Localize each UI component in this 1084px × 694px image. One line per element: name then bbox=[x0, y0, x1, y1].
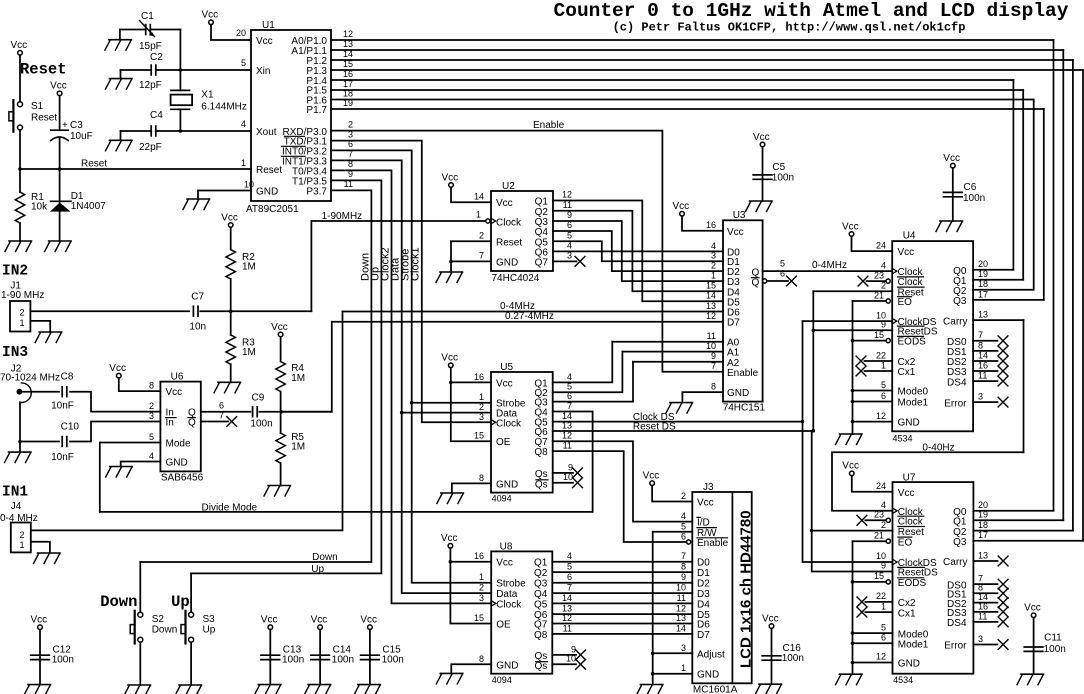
svg-text:Q7: Q7 bbox=[535, 257, 549, 268]
svg-text:100n: 100n bbox=[52, 655, 74, 666]
svg-text:4: 4 bbox=[241, 119, 246, 129]
svg-text:5: 5 bbox=[881, 622, 886, 632]
svg-text:1: 1 bbox=[241, 158, 246, 168]
svg-text:Reset: Reset bbox=[20, 61, 67, 79]
svg-text:LCD 1x16 ch HD44780: LCD 1x16 ch HD44780 bbox=[738, 510, 755, 668]
svg-text:21: 21 bbox=[874, 290, 884, 300]
svg-text:C11: C11 bbox=[1044, 633, 1062, 644]
svg-text:C4: C4 bbox=[150, 110, 163, 121]
svg-text:12: 12 bbox=[706, 311, 716, 321]
svg-text:4: 4 bbox=[881, 260, 886, 270]
svg-text:14: 14 bbox=[978, 350, 988, 360]
svg-text:24: 24 bbox=[876, 241, 886, 251]
svg-text:Q3: Q3 bbox=[953, 537, 967, 548]
svg-text:Enable: Enable bbox=[697, 538, 729, 549]
svg-text:12pF: 12pF bbox=[139, 80, 162, 91]
svg-text:Vcc: Vcc bbox=[898, 488, 915, 499]
svg-text:Vcc: Vcc bbox=[360, 615, 377, 626]
svg-text:Vcc: Vcc bbox=[943, 153, 960, 164]
svg-text:16: 16 bbox=[474, 372, 484, 382]
svg-text:Vcc: Vcc bbox=[898, 247, 915, 258]
svg-text:EODS: EODS bbox=[898, 337, 927, 348]
svg-text:2: 2 bbox=[19, 308, 24, 318]
svg-text:Enable: Enable bbox=[533, 120, 565, 131]
svg-text:P1.7: P1.7 bbox=[306, 105, 327, 116]
svg-text:17: 17 bbox=[343, 79, 353, 89]
svg-text:13: 13 bbox=[676, 613, 686, 623]
svg-text:100n: 100n bbox=[282, 655, 304, 666]
svg-text:Vcc: Vcc bbox=[842, 461, 859, 472]
svg-text:1: 1 bbox=[479, 392, 484, 402]
svg-text:0-4MHz: 0-4MHz bbox=[500, 301, 535, 312]
svg-text:C7: C7 bbox=[191, 292, 204, 303]
svg-text:22pF: 22pF bbox=[139, 142, 162, 153]
svg-text:100n: 100n bbox=[782, 653, 804, 664]
svg-text:10: 10 bbox=[566, 654, 576, 664]
svg-text:12: 12 bbox=[562, 431, 572, 441]
svg-text:GND: GND bbox=[898, 418, 920, 429]
svg-text:7: 7 bbox=[219, 411, 224, 421]
svg-text:100n: 100n bbox=[963, 193, 985, 204]
svg-text:12: 12 bbox=[562, 613, 572, 623]
svg-text:2: 2 bbox=[348, 119, 353, 129]
svg-text:1M: 1M bbox=[291, 373, 305, 384]
svg-text:16: 16 bbox=[474, 551, 484, 561]
svg-text:3: 3 bbox=[479, 593, 484, 603]
svg-text:12: 12 bbox=[343, 29, 353, 39]
svg-text:15: 15 bbox=[474, 431, 484, 441]
svg-text:5: 5 bbox=[881, 380, 886, 390]
svg-text:Mode1: Mode1 bbox=[898, 398, 929, 409]
svg-text:X1: X1 bbox=[201, 90, 214, 101]
svg-text:9: 9 bbox=[881, 320, 886, 330]
svg-text:Clock1: Clock1 bbox=[410, 247, 422, 281]
svg-text:10: 10 bbox=[563, 472, 573, 482]
svg-text:GND: GND bbox=[166, 458, 188, 469]
svg-text:3: 3 bbox=[978, 634, 983, 644]
svg-text:12: 12 bbox=[876, 652, 886, 662]
svg-text:Reset: Reset bbox=[898, 527, 924, 538]
svg-text:1N4007: 1N4007 bbox=[71, 201, 106, 212]
svg-text:1M: 1M bbox=[242, 347, 256, 358]
svg-text:2: 2 bbox=[19, 530, 24, 540]
svg-text:Vcc: Vcc bbox=[727, 227, 744, 238]
svg-text:5: 5 bbox=[241, 58, 246, 68]
svg-text:Qs: Qs bbox=[535, 661, 548, 672]
svg-text:OE: OE bbox=[496, 620, 511, 631]
svg-text:11: 11 bbox=[563, 623, 572, 633]
svg-text:D2: D2 bbox=[697, 579, 710, 590]
svg-text:Vcc: Vcc bbox=[673, 201, 690, 212]
svg-text:DS4: DS4 bbox=[947, 618, 967, 629]
svg-text:15: 15 bbox=[874, 571, 884, 581]
svg-text:2: 2 bbox=[149, 401, 154, 411]
svg-text:Q3: Q3 bbox=[953, 296, 967, 307]
svg-text:1-90 MHz: 1-90 MHz bbox=[1, 290, 44, 301]
svg-text:Vcc: Vcc bbox=[442, 172, 459, 183]
svg-text:Clock: Clock bbox=[496, 418, 522, 429]
svg-text:Error: Error bbox=[944, 641, 967, 652]
svg-text:8: 8 bbox=[149, 381, 154, 391]
svg-text:20: 20 bbox=[978, 500, 988, 510]
svg-text:3: 3 bbox=[711, 251, 716, 261]
svg-text:GND: GND bbox=[727, 388, 749, 399]
svg-text:2: 2 bbox=[711, 261, 716, 271]
svg-text:Q3: Q3 bbox=[534, 579, 548, 590]
svg-text:1M: 1M bbox=[242, 262, 256, 273]
svg-text:6: 6 bbox=[881, 391, 886, 401]
svg-text:Xout: Xout bbox=[256, 127, 277, 138]
svg-text:Clock: Clock bbox=[496, 217, 522, 228]
svg-text:14: 14 bbox=[343, 49, 353, 59]
svg-text:1: 1 bbox=[681, 663, 686, 673]
svg-text:11: 11 bbox=[677, 593, 686, 603]
svg-text:2: 2 bbox=[479, 231, 484, 241]
svg-text:17: 17 bbox=[978, 530, 988, 540]
svg-text:13: 13 bbox=[978, 550, 988, 560]
svg-text:Mode1: Mode1 bbox=[898, 640, 929, 651]
svg-text:Q: Q bbox=[188, 418, 196, 429]
svg-text:4: 4 bbox=[881, 500, 886, 510]
svg-text:Error: Error bbox=[944, 398, 967, 409]
svg-text:In: In bbox=[166, 418, 174, 429]
svg-text:18: 18 bbox=[978, 520, 988, 530]
svg-text:Vcc: Vcc bbox=[166, 387, 183, 398]
svg-text:U4: U4 bbox=[903, 231, 916, 242]
svg-text:9: 9 bbox=[711, 351, 716, 361]
svg-text:2: 2 bbox=[479, 583, 484, 593]
svg-text:11: 11 bbox=[978, 371, 987, 381]
svg-text:Vcc: Vcc bbox=[50, 81, 67, 92]
svg-text:23: 23 bbox=[874, 510, 884, 520]
svg-text:70-1024 MHz: 70-1024 MHz bbox=[0, 373, 60, 384]
svg-text:DS4: DS4 bbox=[947, 377, 967, 388]
svg-text:J4: J4 bbox=[11, 501, 22, 512]
svg-text:Cx1: Cx1 bbox=[898, 608, 916, 619]
svg-text:Reset: Reset bbox=[496, 237, 522, 248]
svg-text:4094: 4094 bbox=[492, 675, 512, 685]
svg-text:14: 14 bbox=[676, 623, 686, 633]
svg-text:8: 8 bbox=[479, 473, 484, 483]
svg-text:15: 15 bbox=[706, 281, 716, 291]
svg-text:Counter 0 to 1GHz with Atmel a: Counter 0 to 1GHz with Atmel and LCD dis… bbox=[554, 0, 1069, 22]
svg-text:ResetDS: ResetDS bbox=[898, 568, 938, 579]
svg-text:15pF: 15pF bbox=[139, 41, 162, 52]
svg-text:1: 1 bbox=[19, 540, 24, 550]
svg-text:6: 6 bbox=[780, 269, 785, 279]
svg-text:Reset: Reset bbox=[256, 165, 282, 176]
svg-text:2: 2 bbox=[881, 281, 886, 291]
svg-text:3: 3 bbox=[149, 411, 154, 421]
svg-text:8: 8 bbox=[479, 654, 484, 664]
svg-text:GND: GND bbox=[697, 670, 719, 681]
svg-text:1: 1 bbox=[711, 271, 716, 281]
svg-text:Q: Q bbox=[752, 277, 760, 288]
svg-text:Vcc: Vcc bbox=[441, 353, 458, 364]
svg-text:5: 5 bbox=[149, 432, 154, 442]
svg-text:Down: Down bbox=[152, 625, 178, 636]
svg-text:Strobe: Strobe bbox=[496, 579, 526, 590]
svg-text:17: 17 bbox=[978, 289, 988, 299]
svg-text:11: 11 bbox=[707, 331, 716, 341]
svg-text:20: 20 bbox=[236, 28, 246, 38]
svg-text:16: 16 bbox=[978, 601, 988, 611]
svg-text:6: 6 bbox=[567, 391, 572, 401]
svg-text:7: 7 bbox=[567, 583, 572, 593]
svg-text:AT89C2051: AT89C2051 bbox=[246, 204, 299, 215]
svg-text:1: 1 bbox=[881, 360, 886, 370]
svg-text:6: 6 bbox=[681, 532, 686, 542]
svg-text:U1: U1 bbox=[262, 20, 275, 31]
svg-text:C10: C10 bbox=[61, 422, 80, 433]
svg-text:10uF: 10uF bbox=[70, 131, 93, 142]
svg-text:EO: EO bbox=[898, 297, 913, 308]
svg-text:EO: EO bbox=[898, 537, 913, 548]
svg-text:Down: Down bbox=[100, 593, 137, 611]
svg-text:U7: U7 bbox=[903, 472, 916, 483]
svg-text:Mode0: Mode0 bbox=[898, 387, 929, 398]
svg-text:20: 20 bbox=[978, 259, 988, 269]
svg-text:5: 5 bbox=[567, 562, 572, 572]
svg-text:IN2: IN2 bbox=[2, 264, 28, 280]
svg-text:4: 4 bbox=[567, 551, 572, 561]
svg-text:13: 13 bbox=[343, 39, 353, 49]
svg-text:18: 18 bbox=[978, 279, 988, 289]
svg-text:Mode: Mode bbox=[166, 439, 191, 450]
svg-text:D7: D7 bbox=[727, 318, 740, 329]
svg-text:Vcc: Vcc bbox=[256, 36, 273, 47]
svg-text:5: 5 bbox=[780, 258, 785, 268]
svg-text:D0: D0 bbox=[697, 558, 710, 569]
svg-text:D1: D1 bbox=[697, 568, 710, 579]
svg-text:1: 1 bbox=[476, 210, 481, 220]
svg-text:74HC4024: 74HC4024 bbox=[492, 273, 540, 284]
svg-text:C2: C2 bbox=[150, 52, 163, 63]
svg-text:Vcc: Vcc bbox=[311, 615, 328, 626]
svg-text:Vcc: Vcc bbox=[31, 615, 48, 626]
svg-text:3: 3 bbox=[681, 643, 686, 653]
svg-text:Adjust: Adjust bbox=[697, 649, 725, 660]
svg-text:Vcc: Vcc bbox=[496, 558, 513, 569]
svg-text:Vcc: Vcc bbox=[202, 10, 219, 21]
svg-text:7: 7 bbox=[978, 330, 983, 340]
svg-text:J3: J3 bbox=[703, 482, 714, 493]
svg-text:4: 4 bbox=[681, 511, 686, 521]
svg-text:100n: 100n bbox=[332, 655, 354, 666]
svg-text:Q8: Q8 bbox=[534, 447, 548, 458]
svg-text:14: 14 bbox=[474, 192, 484, 202]
svg-text:10nF: 10nF bbox=[51, 452, 74, 463]
svg-text:0-4MHz: 0-4MHz bbox=[812, 260, 847, 271]
svg-text:22: 22 bbox=[876, 350, 886, 360]
svg-text:3: 3 bbox=[479, 412, 484, 422]
svg-text:Vcc: Vcc bbox=[496, 198, 513, 209]
svg-text:Vcc: Vcc bbox=[697, 498, 714, 509]
svg-text:Clock: Clock bbox=[496, 599, 522, 610]
svg-text:D4: D4 bbox=[697, 599, 710, 610]
svg-text:15: 15 bbox=[474, 613, 484, 623]
svg-text:Q5: Q5 bbox=[534, 599, 548, 610]
svg-text:1: 1 bbox=[881, 601, 886, 611]
svg-text:Reset DS: Reset DS bbox=[633, 422, 676, 433]
svg-text:100n: 100n bbox=[1044, 644, 1066, 655]
svg-text:Vcc: Vcc bbox=[762, 613, 779, 624]
svg-text:Down: Down bbox=[312, 552, 338, 563]
svg-text:GND: GND bbox=[496, 660, 518, 671]
svg-text:Up: Up bbox=[311, 564, 324, 575]
svg-text:7: 7 bbox=[567, 401, 572, 411]
svg-text:Vcc: Vcc bbox=[496, 378, 513, 389]
svg-text:9: 9 bbox=[568, 462, 573, 472]
svg-text:Carry: Carry bbox=[943, 316, 967, 327]
svg-text:Vcc: Vcc bbox=[753, 132, 770, 143]
svg-text:100n: 100n bbox=[772, 173, 794, 184]
svg-text:74HC151: 74HC151 bbox=[723, 403, 766, 414]
svg-text:+: + bbox=[62, 120, 68, 131]
svg-text:6.144MHz: 6.144MHz bbox=[201, 102, 247, 113]
svg-text:U2: U2 bbox=[502, 181, 515, 192]
svg-text:S3: S3 bbox=[203, 614, 216, 625]
svg-text:16: 16 bbox=[706, 220, 716, 230]
svg-text:14: 14 bbox=[562, 593, 572, 603]
svg-text:100n: 100n bbox=[250, 419, 272, 430]
svg-text:C8: C8 bbox=[61, 372, 74, 383]
svg-text:Q1: Q1 bbox=[534, 558, 548, 569]
svg-text:IN3: IN3 bbox=[2, 345, 28, 361]
svg-text:10n: 10n bbox=[189, 322, 206, 333]
svg-text:Xin: Xin bbox=[256, 66, 270, 77]
svg-text:1: 1 bbox=[19, 318, 24, 328]
svg-text:Vcc: Vcc bbox=[261, 615, 278, 626]
svg-text:Up: Up bbox=[171, 593, 190, 611]
svg-text:D6: D6 bbox=[697, 620, 710, 631]
svg-text:1M: 1M bbox=[291, 442, 305, 453]
svg-text:GND: GND bbox=[898, 659, 920, 670]
svg-text:Reset: Reset bbox=[31, 113, 57, 124]
svg-text:19: 19 bbox=[343, 98, 353, 108]
svg-text:U6: U6 bbox=[171, 372, 184, 383]
svg-text:9: 9 bbox=[881, 561, 886, 571]
svg-text:15: 15 bbox=[874, 330, 884, 340]
svg-text:4: 4 bbox=[149, 451, 154, 461]
svg-text:1: 1 bbox=[479, 572, 484, 582]
svg-text:GND: GND bbox=[496, 479, 518, 490]
svg-text:Q8: Q8 bbox=[534, 630, 548, 641]
svg-text:C3: C3 bbox=[70, 120, 83, 131]
svg-text:Vcc: Vcc bbox=[271, 322, 288, 333]
svg-text:6: 6 bbox=[567, 572, 572, 582]
svg-text:Vcc: Vcc bbox=[643, 471, 660, 482]
svg-text:10k: 10k bbox=[31, 202, 48, 213]
svg-text:8: 8 bbox=[711, 382, 716, 392]
svg-text:9: 9 bbox=[681, 572, 686, 582]
svg-text:24: 24 bbox=[876, 481, 886, 491]
svg-text:Vcc: Vcc bbox=[441, 533, 458, 544]
svg-text:SAB6456: SAB6456 bbox=[161, 473, 204, 484]
svg-text:Cx1: Cx1 bbox=[898, 367, 916, 378]
svg-text:3: 3 bbox=[978, 392, 983, 402]
svg-text:18: 18 bbox=[343, 88, 353, 98]
svg-text:Carry: Carry bbox=[943, 557, 967, 568]
svg-text:15: 15 bbox=[343, 59, 353, 69]
svg-text:IN1: IN1 bbox=[2, 485, 28, 501]
svg-text:19: 19 bbox=[978, 269, 988, 279]
svg-text:10: 10 bbox=[244, 180, 254, 190]
svg-text:Q2: Q2 bbox=[534, 568, 548, 579]
svg-text:Up: Up bbox=[203, 625, 216, 636]
svg-text:C9: C9 bbox=[252, 393, 265, 404]
svg-text:11: 11 bbox=[978, 611, 987, 621]
svg-text:4: 4 bbox=[567, 372, 572, 382]
svg-text:OE: OE bbox=[496, 437, 511, 448]
svg-text:Vcc: Vcc bbox=[842, 221, 859, 232]
svg-text:2: 2 bbox=[479, 402, 484, 412]
svg-text:C6: C6 bbox=[964, 182, 977, 193]
svg-text:4534: 4534 bbox=[893, 675, 913, 685]
svg-text:7: 7 bbox=[711, 361, 716, 371]
svg-text:GND: GND bbox=[256, 187, 278, 198]
svg-text:13: 13 bbox=[706, 301, 716, 311]
svg-text:(c) Petr Faltus OK1CFP, http:/: (c) Petr Faltus OK1CFP, http://www.qsl.n… bbox=[613, 21, 966, 35]
svg-text:4094: 4094 bbox=[492, 494, 512, 504]
svg-text:6: 6 bbox=[219, 401, 224, 411]
svg-text:2: 2 bbox=[681, 491, 686, 501]
svg-text:Vcc: Vcc bbox=[1024, 603, 1041, 614]
svg-text:Enable: Enable bbox=[727, 368, 759, 379]
svg-text:Vcc: Vcc bbox=[11, 40, 28, 51]
svg-text:7: 7 bbox=[479, 251, 484, 261]
svg-text:10: 10 bbox=[876, 551, 886, 561]
svg-text:S2: S2 bbox=[152, 614, 165, 625]
svg-text:D7: D7 bbox=[697, 630, 710, 641]
svg-text:U5: U5 bbox=[500, 362, 513, 373]
svg-text:8: 8 bbox=[681, 562, 686, 572]
svg-text:100n: 100n bbox=[382, 655, 404, 666]
svg-text:S1: S1 bbox=[31, 101, 44, 112]
svg-text:0.27-4MHz: 0.27-4MHz bbox=[505, 311, 554, 322]
svg-text:Vcc: Vcc bbox=[221, 212, 238, 223]
svg-text:C1: C1 bbox=[141, 11, 154, 22]
svg-text:U8: U8 bbox=[500, 542, 513, 553]
svg-text:19: 19 bbox=[978, 510, 988, 520]
svg-text:5: 5 bbox=[681, 521, 686, 531]
svg-text:13: 13 bbox=[978, 310, 988, 320]
svg-text:2: 2 bbox=[881, 520, 886, 530]
svg-text:8: 8 bbox=[978, 340, 983, 350]
svg-text:Reset: Reset bbox=[81, 159, 107, 170]
svg-text:MC1601A: MC1601A bbox=[693, 685, 738, 694]
svg-text:Vcc: Vcc bbox=[109, 363, 126, 374]
svg-text:C5: C5 bbox=[772, 162, 785, 173]
svg-text:12: 12 bbox=[562, 190, 572, 200]
svg-text:Qs: Qs bbox=[535, 479, 548, 490]
svg-text:21: 21 bbox=[874, 530, 884, 540]
svg-text:4534: 4534 bbox=[893, 433, 913, 443]
svg-text:23: 23 bbox=[874, 270, 884, 280]
svg-text:7: 7 bbox=[681, 551, 686, 561]
svg-text:Q7: Q7 bbox=[534, 620, 548, 631]
svg-text:4: 4 bbox=[711, 241, 716, 251]
svg-text:EODS: EODS bbox=[898, 578, 927, 589]
svg-text:U3: U3 bbox=[733, 210, 746, 221]
svg-text:GND: GND bbox=[496, 258, 518, 269]
svg-text:12: 12 bbox=[876, 411, 886, 421]
svg-text:P3.7: P3.7 bbox=[306, 187, 327, 198]
svg-text:16: 16 bbox=[343, 69, 353, 79]
svg-text:22: 22 bbox=[876, 591, 886, 601]
svg-text:10: 10 bbox=[676, 583, 686, 593]
svg-text:16: 16 bbox=[978, 360, 988, 370]
